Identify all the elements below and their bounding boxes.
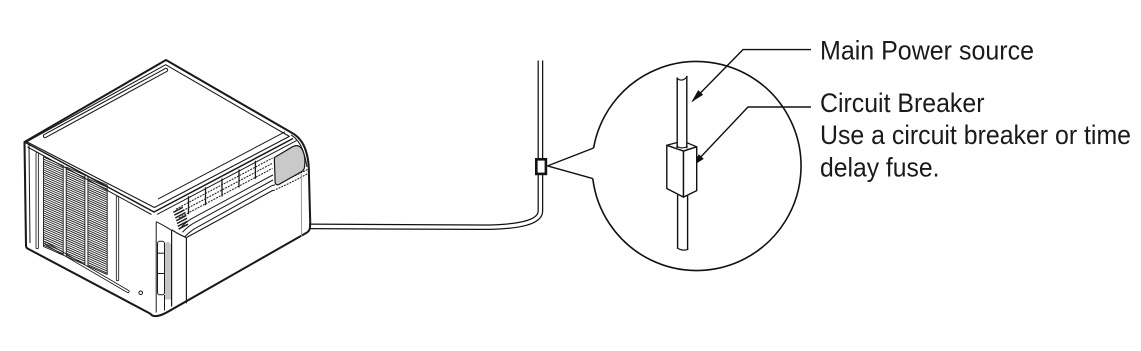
svg-text:Circuit Breaker: Circuit Breaker (820, 88, 985, 118)
svg-text:Main Power source: Main Power source (820, 36, 1034, 66)
svg-text:delay fuse.: delay fuse. (820, 152, 940, 182)
svg-text:Use a circuit breaker or time: Use a circuit breaker or time (820, 120, 1131, 150)
